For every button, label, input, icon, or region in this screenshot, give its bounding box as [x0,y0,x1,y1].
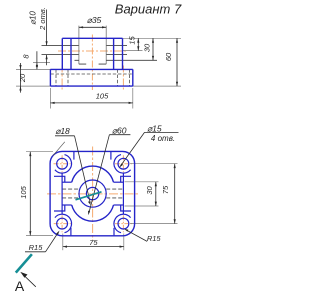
plan bottom edge stub right [113,228,115,236]
leader Ø60 underline [109,134,130,136]
step inner BL [54,205,65,211]
extra mark below Ø18 [53,142,65,156]
hidden recess staircase right + ext [99,60,157,64]
svg-text:⌀10: ⌀10 [29,11,38,25]
front step pad right edge [122,38,124,69]
leader R15 BL [46,231,60,252]
svg-text:А: А [15,278,25,294]
step inner BR [121,205,131,211]
leader Ø18 [75,136,91,205]
dim 30 front [152,38,154,60]
leader Ø60 [88,135,109,215]
centerline BR hole horizontal [115,223,132,225]
svg-text:⌀18: ⌀18 [55,126,70,136]
corner hole BR [118,218,129,229]
front boss right edge [113,38,115,69]
plan top edge stub right [110,152,112,160]
centerline front left hole vertical [61,66,63,91]
dim 60 front [176,38,178,86]
centerline front center vertical [91,35,93,91]
corner hole BL [57,218,68,229]
centerline front right hole vertical [122,66,124,91]
centerline BL hole vertical [61,215,63,232]
centerline BL hole horizontal [54,223,71,225]
step waist right vertical [122,173,124,214]
plan outline rounded square [50,151,135,235]
extension lines plan [26,152,178,251]
step waist left vertical [61,173,63,214]
hidden recess staircase left [75,60,87,64]
centerline TR hole horizontal [115,163,132,165]
front step pad left edge [61,38,63,69]
centerline BR hole vertical [122,215,124,232]
front base right edge [132,69,134,86]
centerline TL hole horizontal [54,163,71,165]
front boss left edge [70,38,72,69]
svg-text:2 отв.: 2 отв. [38,7,47,31]
dim 75 plan right [174,164,176,224]
corner pad BR arc [114,214,131,232]
plan bottom edge stub left [70,228,72,236]
hidden boss walls front [78,26,80,65]
corner hole TL [57,158,68,169]
corner hole TR [118,158,129,169]
centerline front horizontal hole axis [58,50,128,52]
step waist TR horizontal [114,181,124,183]
plan top edge stub left [73,152,75,160]
dim 15 front [137,38,139,50]
circle Ø18 hole plan [86,187,98,199]
dim 20 [19,63,21,93]
step waist TL horizontal [62,181,72,183]
dim Ø35 line [79,26,106,28]
corner pad BL arc [55,214,72,232]
leader Ø15 [119,132,144,167]
hidden Ø10 hole lines plan [62,189,123,198]
leader/dim Ø10 vertical [46,10,48,66]
step inner TL [54,176,65,182]
front top face edge [62,37,122,39]
front base bottom edge [50,85,132,87]
centerline TR hole vertical [122,155,124,172]
centerline TL hole vertical [61,155,63,172]
svg-text:75: 75 [89,238,98,247]
step waist BL horizontal [62,204,72,206]
step inner TR [121,176,131,182]
svg-text:8: 8 [22,54,31,59]
view A arrow [20,272,36,287]
corner pad TL arc [55,155,72,173]
dim 30 plan [155,182,157,206]
extension lines front left [16,38,181,108]
centerline plan center vertical [92,147,94,241]
svg-text:105: 105 [19,185,28,198]
dim 8 [36,51,38,69]
svg-text:30: 30 [143,43,152,52]
dim 105 front [50,102,132,104]
hidden horizontal hole lines front [42,46,128,55]
svg-text:⌀60: ⌀60 [112,125,127,135]
circle Ø35 boss plan [79,180,106,207]
dim 105 plan [29,152,31,236]
leader Ø15 underline [145,131,179,133]
dim 75 bottom [63,246,124,248]
svg-text:⌀35: ⌀35 [87,15,102,25]
corner pad TR arc [114,155,131,173]
hidden corner hole walls front [56,69,129,86]
leader Ø18 underline [55,135,75,137]
central boss top arc [72,166,114,182]
step waist BR horizontal [114,204,124,206]
teal mark center [76,192,102,200]
front base top edge [50,68,132,70]
view A teal stroke [16,254,32,272]
svg-text:R15: R15 [147,234,162,243]
svg-text:20: 20 [18,73,27,83]
leader R15 BR [124,229,147,242]
svg-text:105: 105 [96,92,109,101]
leader R15 BL underline [25,251,46,253]
svg-text:30: 30 [145,186,154,195]
centerline plan center horizontal [47,193,139,195]
svg-text:4 отв.: 4 отв. [151,134,175,143]
central boss bottom arc [72,205,114,221]
hidden mid-base line front [50,73,132,75]
front base left edge [49,69,51,86]
svg-text:R15: R15 [29,243,44,252]
svg-text:60: 60 [164,52,173,61]
svg-text:Вариант 7: Вариант 7 [115,2,182,17]
svg-text:15: 15 [128,36,137,45]
svg-text:75: 75 [161,185,170,194]
